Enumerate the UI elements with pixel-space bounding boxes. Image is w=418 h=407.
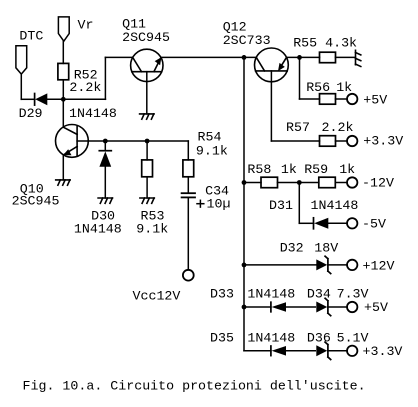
wire D31 to terminal <box>328 222 347 224</box>
wire to R53 <box>146 141 148 160</box>
svg-text:1N4148: 1N4148 <box>247 330 295 345</box>
wire R54 to C34 <box>187 177 189 193</box>
diode D30 <box>74 151 122 237</box>
terminal +5V (R56) <box>347 92 387 107</box>
svg-text:DTC: DTC <box>19 28 43 43</box>
svg-text:2SC945: 2SC945 <box>122 30 170 45</box>
terminal Vr <box>58 17 93 41</box>
svg-text:+12V: +12V <box>363 259 395 274</box>
terminal +12V <box>347 259 394 274</box>
wire node A up to Q11 <box>104 57 106 99</box>
svg-text:+3.3V: +3.3V <box>363 134 403 149</box>
terminal -5V <box>347 217 386 232</box>
svg-text:+3.3V: +3.3V <box>363 344 403 359</box>
svg-text:1k: 1k <box>281 162 297 177</box>
svg-text:1N4148: 1N4148 <box>74 222 122 237</box>
diode D33 <box>210 287 295 312</box>
wire Q10 emitter down <box>62 155 64 180</box>
resistor R58 <box>247 162 296 188</box>
zener diode D36 <box>307 330 369 359</box>
terminal -12V <box>347 176 394 191</box>
svg-text:2SC945: 2SC945 <box>12 193 60 208</box>
ground R55 rotated <box>356 50 361 66</box>
terminal +3.3V (D36) <box>347 344 402 359</box>
svg-text:+5V: +5V <box>363 92 387 107</box>
wire Q11 to Q12 <box>161 56 256 58</box>
wire node A down to Q10 collector <box>62 99 64 127</box>
wire bus to D32 <box>244 264 316 266</box>
wire Q10 base row <box>77 140 188 142</box>
svg-text:1N4148: 1N4148 <box>311 198 359 213</box>
svg-text:1N4148: 1N4148 <box>247 287 295 302</box>
svg-text:R56: R56 <box>306 80 330 95</box>
wire D32 to terminal <box>328 264 347 266</box>
wire C34 to Vcc terminal <box>187 197 189 270</box>
svg-text:D33: D33 <box>210 287 234 302</box>
svg-text:9.1k: 9.1k <box>136 222 168 237</box>
node A junction <box>61 97 66 102</box>
svg-text:+5V: +5V <box>364 300 388 315</box>
wire D34 to terminal <box>328 306 347 308</box>
node D30 junction <box>103 139 108 144</box>
diode D35 <box>210 330 295 355</box>
wire D30 to ground <box>104 167 106 198</box>
wire node D down to D31 <box>298 183 300 224</box>
svg-text:1k: 1k <box>336 80 352 95</box>
svg-text:1N4148: 1N4148 <box>69 106 117 121</box>
wire bus corner to D35 <box>244 350 271 352</box>
wire R57 to terminal <box>336 140 348 142</box>
wire R58 to R59 <box>278 182 319 184</box>
terminal DTC <box>16 28 43 74</box>
resistor R52 <box>58 63 101 95</box>
zener diode D32 <box>280 241 339 274</box>
transistor Q11 <box>122 17 170 82</box>
node R53 junction <box>145 139 150 144</box>
resistor R55 <box>293 35 357 62</box>
wire to D30 <box>104 141 106 151</box>
svg-text:D32: D32 <box>280 241 304 256</box>
zener diode D34 <box>307 287 369 316</box>
resistor R59 <box>304 162 355 188</box>
svg-text:2.2k: 2.2k <box>69 80 101 95</box>
node D junction <box>297 180 302 185</box>
wire node C down to R56 <box>299 57 301 99</box>
wire R52 to node A <box>62 80 64 100</box>
diode D31 <box>269 198 358 229</box>
svg-text:-5V: -5V <box>362 217 386 232</box>
capacitor C34 <box>182 184 231 212</box>
svg-text:Vcc12V: Vcc12V <box>133 289 181 304</box>
wire R56 to terminal <box>336 98 348 100</box>
node C junction <box>297 55 302 60</box>
wire D36 to terminal <box>328 350 347 352</box>
ground Q11 <box>140 114 154 119</box>
svg-text:D36: D36 <box>307 330 331 345</box>
svg-text:18V: 18V <box>314 241 338 256</box>
wire Q12 to R55 <box>287 56 320 58</box>
svg-text:1k: 1k <box>339 162 355 177</box>
wire vertical bus <box>243 57 245 350</box>
wire Q11 base to ground <box>146 72 148 114</box>
wire D35 to D36 <box>286 350 315 352</box>
node B junction <box>242 55 247 60</box>
node bus-D32 junction <box>242 263 247 268</box>
svg-text:Vr: Vr <box>78 17 94 32</box>
transistor Q10 <box>12 124 89 208</box>
ground D30 <box>98 198 112 203</box>
terminal +3.3V (R57) <box>347 134 403 149</box>
transistor Q12 <box>223 20 289 82</box>
terminal +5V (D34) <box>347 300 388 315</box>
node bus-R58 junction <box>242 180 247 185</box>
ground Q10 emitter <box>56 180 70 185</box>
resistor R53 <box>136 160 168 237</box>
ground R53 <box>140 198 154 203</box>
svg-text:-12V: -12V <box>362 176 394 191</box>
terminal Vcc12V <box>133 270 194 304</box>
resistor R54 <box>183 130 228 177</box>
resistor R57 <box>286 120 353 146</box>
wire DTC down <box>20 74 22 99</box>
diode D29 <box>19 93 117 121</box>
svg-text:D34: D34 <box>307 287 331 302</box>
svg-text:R57: R57 <box>286 120 310 135</box>
svg-text:2.2k: 2.2k <box>322 120 354 135</box>
wire R59 to terminal <box>335 182 347 184</box>
wire D33 to D34 <box>286 306 315 308</box>
svg-text:10µ: 10µ <box>207 197 231 212</box>
svg-text:2SC733: 2SC733 <box>223 33 271 48</box>
svg-text:D35: D35 <box>210 330 234 345</box>
wire DTC to D29 <box>21 98 34 100</box>
node bus-D33 junction <box>242 305 247 310</box>
wire Vr to R52 <box>62 41 64 63</box>
wire bus to D33 <box>244 306 271 308</box>
svg-text:9.1k: 9.1k <box>196 144 228 159</box>
wire bend to R54 <box>187 141 189 160</box>
wire R53 to ground <box>146 177 148 198</box>
svg-text:D29: D29 <box>19 106 43 121</box>
svg-text:R58: R58 <box>247 162 271 177</box>
svg-text:R54: R54 <box>198 130 222 145</box>
wire bus to R58 <box>244 182 261 184</box>
wire R55 to ground <box>336 56 356 58</box>
svg-text:R59: R59 <box>304 162 328 177</box>
resistor R56 <box>306 80 352 104</box>
wire D29 to node A <box>47 98 105 100</box>
svg-text:Fig. 10.a. Circuito protezioni: Fig. 10.a. Circuito protezioni dell'usci… <box>23 379 366 394</box>
wire Q12 base down to R57 <box>270 71 272 141</box>
svg-text:D31: D31 <box>269 198 293 213</box>
svg-text:R55 4.3k: R55 4.3k <box>293 35 357 50</box>
